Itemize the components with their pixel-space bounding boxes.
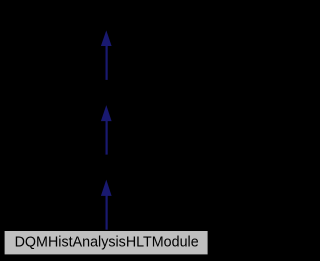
inheritance arrow 2 (middle) [101, 105, 112, 155]
svg-text:DQMHistAnalysisHLTModule: DQMHistAnalysisHLTModule [15, 235, 199, 251]
inheritance arrow 3 (from current class) [101, 180, 112, 230]
inheritance arrow 1 (to topmost base class) [101, 30, 112, 80]
inheritance diagram: DQMHistAnalysisHLTModule [0, 0, 213, 261]
class node DQMHistAnalysisHLTModule (current class, gray fill) [4, 230, 208, 255]
